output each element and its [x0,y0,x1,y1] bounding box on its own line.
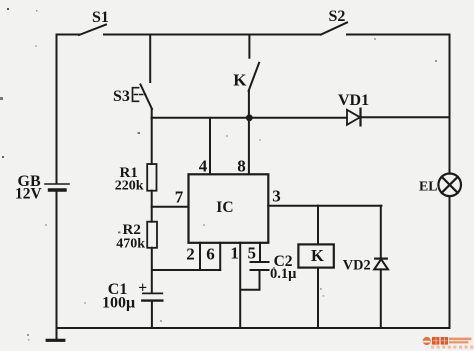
wire pins 2,6 bus [152,269,220,271]
wire relay coil to bottom bus [317,268,319,328]
relay contact K [249,63,260,91]
svg-text:100μ: 100μ [102,295,135,312]
wire pin 1 [239,243,241,328]
svg-text:S1: S1 [92,9,109,26]
svg-text:12V: 12V [15,186,43,203]
diode VD1 [347,109,361,126]
wire pin 3 corner down to VD2 [380,206,382,259]
wire VD1 to right rail [361,116,450,118]
svg-text:+: + [138,280,147,297]
diode VD2 [374,259,388,270]
svg-text:1: 1 [230,244,239,263]
wire pin 2 [199,243,201,270]
wire pin 7 [152,206,189,208]
battery terminal bar [47,339,64,342]
wire pin 3 [268,205,381,207]
svg-text:7: 7 [175,187,184,206]
svg-text:K: K [233,70,247,89]
svg-text:3: 3 [272,186,281,205]
wire right rail upper [449,35,451,174]
wire top bus: S2 to right rail [347,34,450,36]
op-amp/timer IC U1 [189,174,269,243]
wire pin 5 [259,243,261,261]
wire K branch from top bus [248,35,250,58]
svg-text:5: 5 [248,244,257,263]
wire K contact to node A [248,91,250,118]
svg-text:EL: EL [419,178,437,193]
wire S3 branch from top bus [149,35,151,83]
svg-text:VD1: VD1 [338,92,369,109]
resistor R1 [147,164,156,191]
wire R1 top: node A to R1 [151,118,153,164]
wire top bus: S1 to S2 [104,34,321,36]
switch S2 [321,23,347,35]
svg-text:6: 6 [206,245,215,264]
svg-text:2: 2 [186,245,195,264]
wire right rail lower [449,196,451,328]
lamp EL [438,174,461,197]
wire pin 6 [219,243,221,270]
wire node A to VD1 [152,117,347,119]
svg-text:8: 8 [237,157,246,176]
wire S3 to node A [151,109,153,119]
wire left rail lower [56,190,58,341]
wire R1 to R2 [151,191,153,222]
wire left rail upper [56,35,58,184]
wire relay coil branch [317,206,319,244]
wire R2 to C1 [151,248,153,293]
battery GB [45,184,69,190]
wire pin 8 [248,118,250,174]
wire pin 4 [209,118,211,174]
watermark [423,337,474,349]
wire C1 to bottom bus [151,301,153,328]
wire bottom bus [57,327,450,329]
svg-text:220k: 220k [115,179,144,194]
wire C2 to pin 1 wire [241,270,260,290]
switch S1 [79,25,106,36]
svg-text:K: K [311,246,324,265]
junction node A dot [246,114,253,121]
svg-text:470k: 470k [116,237,145,252]
svg-text:IC: IC [216,199,233,216]
wire VD2 to bottom bus [380,269,382,328]
relay coil K [298,244,333,267]
svg-text:4: 4 [199,157,208,176]
resistor R2 [147,222,157,248]
capacitor C2 [251,262,269,270]
capacitor C1 [142,293,162,300]
svg-text:S2: S2 [329,8,346,25]
wire top bus: battery to S1 [57,34,80,36]
pushbutton S3 [133,85,153,110]
svg-text:VD2: VD2 [343,257,371,273]
svg-text:S3: S3 [113,88,130,105]
